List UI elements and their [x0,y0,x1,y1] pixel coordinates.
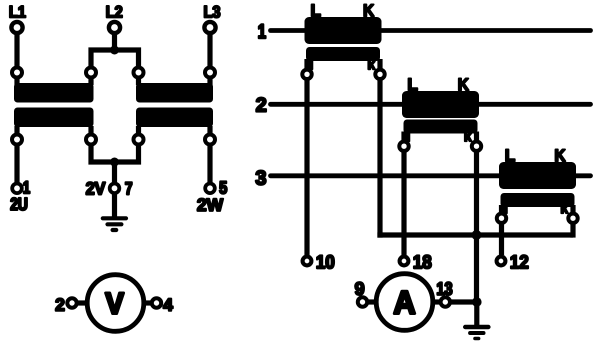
transformer T1 secondary pin left [12,135,22,145]
wire ammeter to terminal 13 [432,299,441,304]
wire CT1 l to terminal 10 [304,79,309,255]
transformer T1 primary winding [14,83,94,103]
label V [106,293,124,314]
wire k common [377,232,573,237]
CT2 secondary stubs [401,132,406,142]
CT3 pin k [568,214,577,223]
transformer T2 primary pin right [205,68,215,78]
bus line 1 [271,28,591,33]
terminal L3 [204,22,215,33]
transformer T2 secondary pin left [134,135,144,145]
wire terminal 9 to ammeter [367,299,377,304]
CT1 secondary stubs [304,59,309,69]
CT3 pin l [497,214,506,223]
wire CT3 k up [570,223,575,238]
voltmeter V [87,275,144,332]
terminal 2 [67,298,76,307]
transformer T1 primary pin right [86,68,96,78]
wire common to terminal 7 [112,162,117,183]
terminal 4 [152,298,161,307]
CT2 pin k [472,142,481,151]
transformer T1 secondary winding [14,108,94,128]
CT3 label K [556,150,566,162]
CT1 label L [312,5,321,17]
CT1 label K [364,5,374,17]
wire T2 to terminal 5 [207,144,212,183]
CT3 primary winding [499,162,576,189]
terminal L1 [11,22,22,33]
label 12 [511,255,528,268]
terminal 1 [12,184,22,194]
CT2 label l [407,130,409,142]
label 2 voltmeter [56,298,64,310]
wire CT3 l to terminal 12 [499,223,504,256]
wire T2 primary stubs [136,77,141,85]
CT3 secondary winding [501,193,575,207]
CT2 label k [465,130,472,141]
CT1 pin l [302,70,311,79]
label 10 [317,255,334,268]
label L2 [107,6,122,18]
CT2 label L [409,79,418,91]
wire L2 down [112,34,117,50]
transformer T2 primary pin left [134,68,144,78]
label bus 1 [259,24,266,38]
CT2 primary winding [402,91,479,118]
label bus 2 [256,98,266,112]
label 13 [437,282,452,295]
CT2 secondary winding [404,120,478,134]
CT2 label K [459,79,469,91]
transformer T1 secondary pin right [86,135,96,145]
CT3 label L [506,150,515,162]
wire L3 to T2 [207,34,212,67]
transformer T2 secondary winding [136,108,213,128]
label bus 3 [256,171,266,185]
junction L2 branch [110,46,119,55]
wire T2 left to common [115,144,139,162]
label 2W [197,199,223,211]
wire T1 primary stubs [14,77,19,85]
wire terminal 7 to ground [112,194,117,217]
CT3 label l [505,202,507,214]
CT2 pin l [399,142,408,151]
ammeter A [376,274,433,331]
label 2U [11,198,27,210]
transformer T1 primary pin left [12,68,22,78]
wire T1 to terminal 1 [14,144,19,183]
bus line 3 [271,173,591,178]
bus line 2 [271,102,591,107]
CT1 label k [368,58,375,69]
ground left [103,218,126,230]
CT1 pin k [375,70,384,79]
wire T1 right to common [91,144,115,162]
wire T2 secondary stubs [136,126,141,135]
terminal L2 [109,22,120,33]
ground right [465,327,488,339]
label 1 [24,181,30,193]
wire L2 branch [91,50,139,67]
junction common [110,158,119,167]
wire terminal 2 to voltmeter [77,300,89,305]
wire L1 to T1 [14,34,19,67]
label 9 [355,282,364,295]
wire CT1 k down [377,79,382,238]
terminal 5 [205,184,215,194]
terminal 7 [110,184,120,194]
wire terminal 13 to junction [450,299,477,304]
wire voltmeter to terminal 4 [143,300,152,305]
label L1 [10,6,26,17]
transformer T2 secondary pin right [205,135,215,145]
wire CT2 l to terminal 18 [401,151,406,256]
wire junction to ground [474,302,479,325]
terminal 10 [303,257,312,266]
terminal 12 [497,257,506,266]
junction ammeter ground [472,297,482,307]
label 7 [126,182,132,194]
transformer T2 primary winding [136,83,213,103]
label A [394,291,415,313]
label L3 [205,6,220,18]
CT1 label l [310,58,312,70]
label 18 [414,255,431,268]
CT1 secondary winding [306,47,380,61]
terminal 18 [400,257,409,266]
label 5 [220,181,227,193]
label 4 [163,299,172,311]
wire T1 secondary stubs [14,126,19,135]
wire CT2 k down [474,151,479,303]
junction k common [472,230,482,240]
terminal 13 [441,297,450,306]
label 2V [86,182,105,194]
terminal 9 [358,297,367,306]
CT3 label k [561,202,568,213]
CT1 primary winding [305,17,382,44]
CT3 secondary stubs [499,205,504,213]
